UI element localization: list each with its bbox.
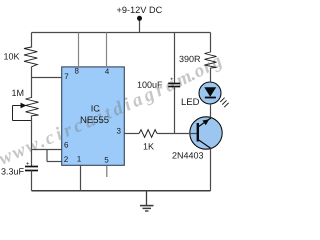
ground (146, 191, 148, 206)
pin label 8 (75, 68, 79, 74)
wire pin4 (106, 33, 108, 68)
pin label 4 (105, 69, 109, 75)
watermark www.circuitdiagram.org (0, 57, 222, 164)
wire pot wiper (13, 105, 23, 107)
pin label 1 (77, 156, 80, 162)
wire 390R to LED (210, 68, 212, 82)
transistor Q1 body (190, 117, 222, 149)
label 2N4403 (172, 152, 203, 158)
resistor R3 1K (139, 130, 157, 138)
pin label 7 (65, 74, 69, 80)
wire top rail (32, 32, 211, 34)
label IC (92, 105, 100, 111)
resistor R1 10K (24, 47, 37, 67)
wire pin1 (80, 165, 82, 191)
wire bottom rail (32, 190, 211, 192)
wire pin2 (46, 150, 48, 162)
C2 plus (170, 77, 173, 80)
wire 100uF branch (174, 33, 176, 84)
pin label 5 (105, 157, 109, 163)
wire pin3 (125, 133, 140, 135)
wire rail to 390R (210, 33, 212, 53)
wire C1 to bottom rail (31, 171, 33, 191)
wire 1K to base (157, 133, 198, 135)
LED D1 symbol (204, 87, 216, 97)
wire 10K to pot (31, 67, 33, 99)
potentiometer R2 1M (26, 98, 39, 116)
label LED (182, 98, 199, 105)
C1 plus (26, 162, 29, 165)
label +9-12V DC (117, 7, 162, 14)
transistor Q1 2N4403 symbol (197, 123, 199, 142)
IC U1 NE555 body (62, 67, 125, 165)
wire pin5 stub (106, 166, 108, 178)
wire collector to bottom rail (210, 148, 212, 191)
label 1K (144, 143, 154, 149)
label 3.3uF (1, 168, 23, 174)
pin label 6 (64, 142, 68, 148)
wire rail to 10K (31, 33, 33, 48)
label 100uF (138, 82, 162, 88)
LED D1 body (199, 82, 221, 104)
label 10K (4, 53, 19, 59)
node +V supply (139, 20, 141, 33)
label NE555 (81, 116, 109, 123)
capacitor C1 3.3uF (25, 166, 38, 168)
wire pot to cap C1 (31, 116, 33, 167)
wire pin6 (32, 149, 63, 151)
pin label 3 (117, 128, 121, 134)
wire LED to Q1 (210, 104, 212, 117)
label 390R (179, 56, 200, 62)
resistor R4 390R (205, 52, 217, 68)
capacitor C2 100uF (168, 83, 180, 85)
wire pin7 (32, 77, 63, 79)
pin label 2 (64, 156, 68, 162)
wire C2 to base node (174, 87, 176, 134)
label 1M (12, 90, 23, 96)
wire pin8 (78, 33, 80, 68)
LED rays (220, 98, 224, 102)
